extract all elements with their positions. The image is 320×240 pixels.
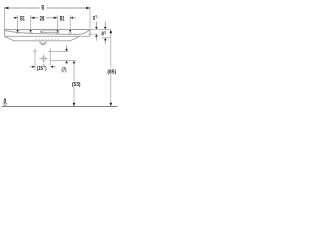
dimension (15) right arrow — [50, 66, 53, 68]
dimension B1 left arrow — [13, 17, 15, 19]
svg-text:(53): (53) — [72, 82, 81, 88]
svg-text:B1: B1 — [60, 15, 65, 22]
svg-text:1): 1) — [104, 29, 106, 34]
dimension B arrowheads — [5, 7, 91, 10]
extension line right (basin right edge) — [89, 7, 91, 30]
tap hole arrow 4 — [69, 30, 72, 32]
tap hole arrow 3 — [56, 30, 59, 32]
datum triangle — [3, 104, 7, 107]
dimension 8 arrows — [104, 22, 106, 27]
washbasin outline — [5, 30, 91, 45]
svg-text:(85): (85) — [107, 70, 116, 76]
tap hole ellipse 3 — [56, 32, 59, 33]
tap hole ellipse 1 — [16, 32, 19, 33]
dimension B line — [5, 7, 91, 9]
floor line — [2, 106, 118, 108]
tap hole extension line 2 — [30, 15, 32, 30]
drain stub flange — [40, 41, 46, 43]
tap hole extension line 3 — [56, 15, 58, 30]
extension line left (basin left edge) — [4, 7, 6, 30]
water supply cross left — [33, 50, 37, 52]
dimension 85 arrows — [109, 30, 112, 34]
overflow fixture slot — [40, 31, 59, 33]
rim top extension to height dims — [90, 29, 111, 31]
dimension (53) line — [73, 63, 75, 102]
tap hole ellipse 2 — [29, 32, 32, 33]
extension line C (8 dim bottom) — [101, 37, 111, 39]
dimension 28 line and arrows — [31, 17, 58, 19]
tap hole extension line 1 — [17, 15, 19, 30]
washbasin bowl underside — [5, 36, 81, 41]
svg-text:B: B — [42, 5, 45, 12]
hidden dashed line — [35, 38, 61, 40]
extension line B (5 dim bottom) — [88, 33, 97, 35]
dimension (7) up arrow — [65, 61, 68, 64]
drain symbol circle-cross — [39, 54, 48, 63]
svg-text:28: 28 — [40, 16, 45, 23]
dimension 5 arrows — [95, 22, 97, 27]
supply right extension line — [49, 48, 51, 65]
svg-text:B1: B1 — [20, 15, 25, 22]
overflow fixture circle — [41, 31, 43, 33]
svg-text:(7): (7) — [62, 68, 67, 74]
dimension 85 line — [110, 33, 112, 103]
water supply cross right with line D — [48, 51, 69, 53]
dimension (15) left arrow — [30, 66, 33, 68]
line E (drain height) — [50, 60, 75, 62]
tap hole arrow 2 — [29, 30, 32, 32]
tap hole arrow 1 — [16, 30, 19, 32]
tap hole ellipse 4 — [69, 32, 72, 33]
dimension (53) arrows — [73, 61, 76, 64]
supply left extension line — [34, 49, 36, 70]
tap hole extension line 4 — [69, 15, 71, 30]
svg-text:): ) — [45, 66, 46, 72]
drain stub pipe — [42, 43, 45, 45]
dimension (7) down arrow — [66, 45, 68, 49]
washbasin inner rim curve — [5, 30, 90, 34]
svg-text:1): 1) — [95, 14, 97, 19]
dimension B1 right arrow — [70, 17, 73, 19]
